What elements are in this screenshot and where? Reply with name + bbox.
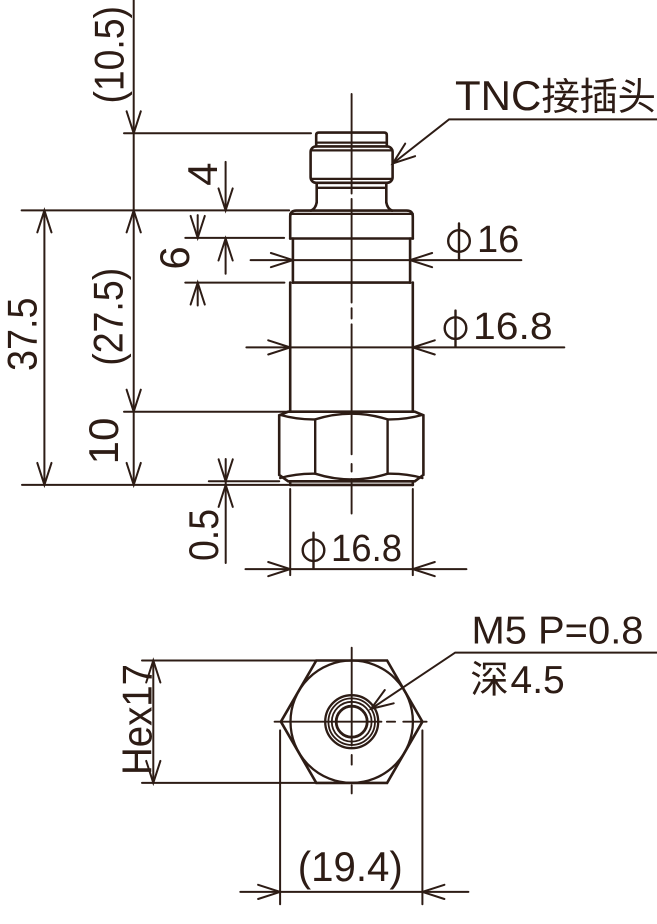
svg-text:Hex17: Hex17	[114, 664, 161, 775]
thread major circle	[332, 702, 372, 742]
extension line 19.4 right	[421, 730, 423, 904]
extension line flange bottom	[185, 237, 284, 239]
side view centerline	[351, 94, 353, 194]
dimension line bottom phi16.8	[246, 568, 467, 570]
dimension 0.5	[225, 459, 227, 563]
tapped hole M5	[336, 706, 367, 737]
body top flange phi16.8	[290, 211, 413, 239]
label depth 4.5	[472, 661, 507, 696]
svg-text:37.5: 37.5	[0, 298, 46, 372]
connector neck	[315, 183, 318, 203]
dimension 6 arrows	[197, 215, 199, 238]
svg-text:(27.5): (27.5)	[85, 268, 132, 366]
dimension line (10.5)/(27.5)/10	[133, 0, 135, 485]
extension line body top	[22, 209, 290, 211]
extension lines bottom phi16.8	[289, 489, 291, 575]
extension line 19.4 left	[279, 730, 281, 904]
extension line overall bottom	[22, 484, 290, 486]
svg-text:(10.5): (10.5)	[85, 6, 132, 104]
svg-text:M5 P=0.8: M5 P=0.8	[472, 610, 644, 653]
svg-text:4.5: 4.5	[511, 659, 565, 702]
pilot step 0.5	[289, 481, 292, 485]
groove section phi16	[292, 239, 295, 283]
hex nut facet lines	[314, 419, 316, 473]
label bottom phi16.8	[303, 539, 325, 561]
svg-text:(19.4): (19.4)	[298, 843, 403, 890]
connector base flare	[311, 202, 317, 210]
M5 thread leader	[371, 653, 657, 709]
svg-text:6: 6	[151, 246, 198, 269]
extension line hex17 bottom	[142, 782, 316, 784]
hex nut chamfer arcs	[280, 414, 422, 420]
chamfer circle	[328, 698, 375, 745]
svg-text:10: 10	[80, 418, 127, 465]
svg-text:4: 4	[179, 163, 226, 186]
dimension line phi16	[251, 259, 522, 261]
extension line groove bottom	[185, 282, 284, 284]
svg-text:16.8: 16.8	[331, 528, 402, 570]
dimension line phi16.8 right	[246, 346, 564, 348]
dimension 4 arrows	[225, 162, 227, 211]
extension line hex bottom	[209, 480, 279, 482]
hex chamfer circle	[291, 661, 413, 783]
TNC connector top cap	[316, 133, 387, 147]
dimension line (19.4)	[240, 891, 468, 893]
dimension line 37.5	[43, 210, 45, 485]
extension line connector top	[124, 132, 311, 134]
bottom view horizontal centerline	[275, 721, 382, 723]
main body phi16.8	[289, 283, 292, 412]
label phi16.8 right	[445, 317, 467, 339]
svg-text:16: 16	[477, 219, 519, 261]
extension line hex17 top	[142, 660, 316, 662]
bottom view vertical centerline	[351, 648, 353, 746]
hex nut side view outline	[279, 412, 423, 482]
TNC connector leader	[393, 119, 657, 163]
svg-text:TNC: TNC	[455, 72, 541, 119]
dimension line Hex17	[152, 661, 154, 783]
svg-text:0.5: 0.5	[180, 509, 227, 561]
svg-text:16.8: 16.8	[473, 306, 553, 348]
bottom view hexagon	[281, 661, 423, 783]
counterbore circle	[325, 695, 378, 748]
TNC coupling ring	[311, 146, 393, 182]
label phi16	[448, 230, 470, 252]
extension line hex top	[124, 411, 288, 413]
